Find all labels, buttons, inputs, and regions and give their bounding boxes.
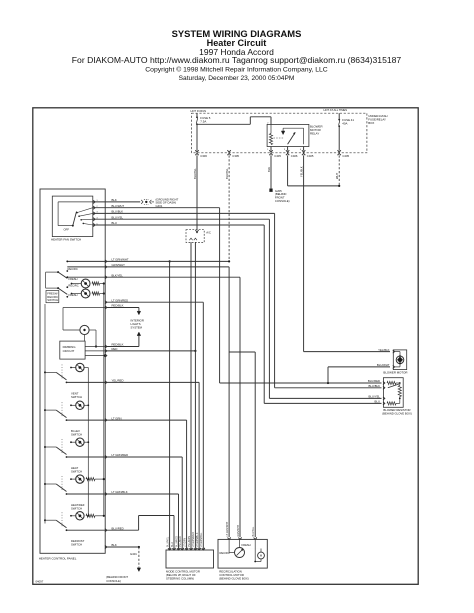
recirc position sensor — [235, 548, 245, 558]
indicator bulb recirc — [72, 293, 81, 295]
relay pin stubs to connectors — [270, 147, 272, 151]
blower motor pins — [393, 350, 395, 353]
svg-text:1: 1 — [170, 548, 171, 550]
svg-text:BLU/YEL: BLU/YEL — [225, 168, 229, 179]
wire branch fuse5 to relay coil — [197, 123, 250, 125]
svg-text:BLK: BLK — [267, 167, 271, 172]
ground connector near dash — [141, 200, 143, 204]
indicator bulb HEAT — [71, 441, 76, 443]
svg-text:Copyright © 1998 Mitchell Repa: Copyright © 1998 Mitchell Repair Informa… — [145, 66, 328, 74]
svg-text:BLU/BLK: BLU/BLK — [112, 210, 124, 214]
svg-text:FRESH: FRESH — [68, 277, 77, 281]
diagram border frame — [33, 108, 418, 585]
wire RED dimming to junction — [105, 350, 195, 352]
indicator bulb fresh — [72, 283, 81, 285]
wire blower resistor common — [220, 382, 382, 384]
wire to mode pin4 — [105, 456, 182, 458]
wire YEL/BLK relay to blower motor — [303, 155, 305, 351]
relay coil — [269, 134, 272, 145]
svg-text:C405: C405 — [274, 154, 281, 158]
connector C405 at x=339.2 — [338, 150, 341, 152]
svg-text:M: M — [260, 554, 263, 558]
svg-text:40A: 40A — [342, 122, 347, 126]
resistor DEFROST bulb — [86, 514, 95, 517]
blower resistor elements — [387, 381, 396, 384]
panel pin row HEAT/DEF — [105, 492, 107, 495]
svg-text:HOT AT ALL TIMES: HOT AT ALL TIMES — [324, 108, 348, 112]
label box FRESH/RECIRC SWITCH — [46, 291, 59, 303]
wire BLU/WHT blower return — [328, 366, 390, 368]
relay contact arm — [288, 132, 296, 144]
svg-text:YEL/GRN: YEL/GRN — [188, 536, 191, 547]
svg-text:8: 8 — [200, 548, 201, 550]
svg-text:LT GRN/BLK: LT GRN/BLK — [196, 532, 199, 547]
wire branch to recirc pin3 — [229, 351, 255, 353]
wire stub dimming third — [85, 355, 105, 357]
svg-text:For DIAKOM-AUTO http://www.dia: For DIAKOM-AUTO http://www.diakom.ru Tag… — [72, 55, 402, 65]
mode switch VENT — [44, 371, 46, 373]
wire fuse41 to connector C405 — [338, 126, 340, 150]
resistor fresh bulb — [92, 282, 100, 285]
svg-text:6: 6 — [192, 548, 193, 550]
svg-text:RED: RED — [112, 347, 118, 351]
wire recirc lamp feed 3 — [67, 276, 105, 278]
svg-text:9: 9 — [204, 548, 205, 550]
svg-text:CONSOLE): CONSOLE) — [275, 199, 290, 203]
wire BLU fan sw — [93, 224, 264, 226]
blower resistor box — [383, 378, 403, 408]
wire BLU/YEL dashed to junction — [228, 155, 230, 261]
blower resistor pins — [383, 381, 385, 384]
fresh-recirc switch frame — [45, 272, 47, 288]
connector C305 at x=229.1 — [227, 150, 230, 152]
fuse F5 — [196, 116, 198, 118]
wire BLU/BLK fan sw — [93, 212, 275, 214]
dimming circuit box — [60, 341, 85, 359]
wire RED/BLK to interior lights system — [105, 307, 139, 309]
svg-text:YEL/BLK: YEL/BLK — [378, 348, 389, 352]
recirc motor pins — [228, 538, 231, 540]
wire to mode pin3 — [105, 493, 179, 495]
svg-text:HEATER FAN SWITCH: HEATER FAN SWITCH — [51, 237, 81, 241]
wires dimming circuit outputs — [85, 346, 105, 348]
wire BLK relay to ground G205 — [270, 155, 272, 188]
blower motor box — [393, 350, 406, 370]
svg-text:BLU/YEL: BLU/YEL — [112, 215, 124, 219]
wire RED/BLK from interior lights — [137, 332, 141, 336]
svg-text:1: 1 — [267, 149, 269, 151]
svg-text:RELAY: RELAY — [310, 131, 319, 135]
wire to mode pin1 from panel — [169, 260, 171, 262]
svg-text:HOT IN RUN: HOT IN RUN — [191, 109, 207, 113]
wire to mode pin2 (jogged) — [105, 529, 139, 531]
connector C406 at x=287.6 — [286, 150, 289, 152]
svg-text:A/C: A/C — [206, 230, 211, 234]
bulb bus to junction — [89, 329, 96, 331]
wire fuse5 to connector C306 — [196, 124, 198, 150]
svg-text:BLOWER MOTOR: BLOWER MOTOR — [383, 371, 407, 375]
heater fan switch pins — [93, 200, 95, 203]
illumination bulb above dimming circuit — [80, 325, 89, 334]
wire to recirc pin2 — [105, 276, 240, 278]
svg-text:C405: C405 — [307, 154, 314, 158]
svg-text:BLU: BLU — [112, 221, 117, 225]
svg-text:CIRCUIT: CIRCUIT — [63, 349, 75, 353]
svg-text:SWITCH: SWITCH — [71, 470, 82, 474]
recirculation control motor box — [218, 539, 267, 568]
mode control motor pins — [168, 548, 171, 550]
panel pin BLK ground row — [105, 545, 107, 548]
svg-text:BLU/YEL: BLU/YEL — [193, 168, 197, 179]
svg-text:3: 3 — [179, 548, 180, 550]
svg-text:RECIRC: RECIRC — [220, 551, 230, 555]
svg-text:1: 1 — [230, 537, 231, 539]
relay box U1 blower motor relay — [267, 124, 309, 146]
svg-text:BLU/YEL: BLU/YEL — [166, 536, 169, 547]
svg-text:C405: C405 — [342, 154, 349, 158]
svg-text:CONSOLE): CONSOLE) — [106, 579, 121, 583]
panel pin row VENT — [105, 381, 107, 384]
svg-text:3: 3 — [256, 537, 257, 539]
svg-text:4: 4 — [300, 149, 302, 151]
connector C405 at x=303.6 — [302, 150, 305, 152]
wire junction BLU/YEL power tap — [105, 260, 229, 262]
panel pin row DEFROST — [105, 529, 107, 532]
heater control panel box — [40, 189, 105, 553]
mode control motor box — [166, 550, 214, 568]
svg-text:SWITCH: SWITCH — [71, 395, 82, 399]
svg-text:OFF: OFF — [64, 228, 70, 232]
wire BLK fan switch to ground connector — [93, 201, 140, 203]
resistor recirc bulb — [92, 292, 100, 295]
svg-text:7: 7 — [196, 548, 197, 550]
ground G205 — [270, 189, 273, 192]
wire relay contact feed from fuse41 — [287, 155, 289, 186]
ground G401 dashed lead — [138, 547, 140, 568]
wire to recirc pin1 — [105, 266, 229, 268]
svg-text:SYSTEM: SYSTEM — [131, 325, 143, 329]
panel lamp bus — [103, 284, 105, 516]
svg-text:RED/BLK: RED/BLK — [112, 304, 124, 308]
wire A/C out 2 to mode pin7 — [194, 242, 196, 550]
svg-text:04097: 04097 — [36, 579, 44, 583]
svg-text:Saturday, December 23, 2000 0: Saturday, December 23, 2000 05:04PM — [179, 75, 295, 82]
blower motor M1 — [396, 356, 404, 364]
wire recirc lamp feed 2 — [67, 266, 105, 268]
panel switch bus — [44, 304, 46, 524]
recirc switch arm 2 — [57, 287, 59, 289]
svg-text:LT GRN/RED: LT GRN/RED — [112, 298, 129, 302]
svg-text:LT GRN/YEL: LT GRN/YEL — [200, 532, 203, 547]
wire LT GRN/RED to mode motor pin9 — [105, 301, 203, 303]
mode switch HEAT/DEF — [44, 483, 46, 485]
svg-text:BLU/BLK: BLU/BLK — [368, 384, 380, 388]
recirc switch arm 1 — [57, 271, 59, 273]
recirc motor M2 — [258, 552, 265, 559]
wire to mode pin5 — [105, 419, 187, 421]
svg-text:YEL/BLK: YEL/BLK — [300, 166, 304, 177]
panel pins fresh/recirc rows — [105, 260, 107, 263]
svg-text:SWITCH: SWITCH — [71, 543, 82, 547]
svg-text:3: 3 — [284, 149, 286, 151]
blower resistor bypass contact — [388, 384, 399, 388]
indicator bulb HEAT/DEF — [71, 478, 76, 480]
bulb return bus — [87, 368, 89, 516]
mode switch HEAT — [44, 446, 46, 448]
svg-text:(BEHIND GLOVE BOX): (BEHIND GLOVE BOX) — [382, 411, 412, 415]
svg-text:STEERING COLUMN): STEERING COLUMN) — [166, 577, 194, 581]
wire BLU/YEL fan sw — [93, 218, 270, 220]
svg-text:RECIRC: RECIRC — [68, 283, 78, 287]
wire to mode pin8 — [105, 381, 199, 383]
resistor HEAT/DEF bulb — [86, 478, 95, 481]
connector C405 at x=271.0 — [269, 150, 272, 152]
svg-text:BLU/RED: BLU/RED — [368, 379, 380, 383]
A/C connector (dashed) — [186, 230, 204, 243]
relay mechanical link (dashed) — [274, 137, 285, 139]
svg-text:2: 2 — [175, 548, 176, 550]
wire fuse5 top feed — [196, 113, 198, 117]
wire BLU/YEL fuse5 to A/C connector — [196, 155, 198, 229]
svg-text:SWITCH: SWITCH — [47, 298, 58, 302]
svg-text:BLU: BLU — [171, 542, 174, 547]
svg-text:BLU: BLU — [375, 400, 380, 404]
svg-text:SWITCH: SWITCH — [71, 507, 82, 511]
wire fuse41 top feed — [338, 113, 340, 119]
svg-text:LT GRN/RED: LT GRN/RED — [192, 532, 195, 547]
svg-text:2: 2 — [241, 537, 242, 539]
svg-text:YEL/RED: YEL/RED — [179, 536, 182, 547]
under-dash fuse/relay box (dashed) — [192, 113, 367, 153]
relay fixed contact wire — [283, 127, 304, 129]
mode switch BI-LEV — [44, 409, 46, 411]
wire BLK panel to ground G401 — [105, 546, 139, 548]
svg-text:SWITCH: SWITCH — [71, 433, 82, 437]
fuse F41 — [338, 119, 340, 121]
svg-text:(BEHIND GLOVE BOX): (BEHIND GLOVE BOX) — [219, 577, 249, 581]
indicator bulb BI-LEV — [71, 404, 76, 406]
svg-text:HEATER CONTROL PANEL: HEATER CONTROL PANEL — [39, 556, 77, 560]
svg-text:4: 4 — [183, 548, 184, 550]
wire A/C out 1 to mode pin6 — [190, 242, 192, 550]
svg-text:C306: C306 — [200, 154, 207, 158]
svg-text:BLU/WHT: BLU/WHT — [112, 204, 125, 208]
panel pin row BI-LEV — [105, 419, 107, 422]
svg-text:5: 5 — [187, 548, 188, 550]
svg-text:C406: C406 — [291, 154, 298, 158]
svg-text:BLU/RED: BLU/RED — [175, 536, 178, 547]
svg-text:WHT: WHT — [335, 173, 339, 179]
connector C306 at x=197.0 — [195, 150, 198, 152]
svg-text:BLU/YEL: BLU/YEL — [368, 395, 380, 399]
svg-text:G401: G401 — [130, 552, 137, 556]
indicator bulb VENT — [71, 367, 76, 369]
heater fan switch rotary contacts — [58, 201, 93, 203]
svg-text:C305: C305 — [232, 154, 239, 158]
wire BLU/WHT fan sw to resistor pin1 — [93, 207, 220, 209]
heater fan switch box — [52, 196, 93, 237]
svg-text:7.5A: 7.5A — [200, 120, 206, 124]
svg-text:BOX: BOX — [368, 121, 374, 125]
wire recirc lamp feed 1 — [67, 260, 105, 262]
svg-text:LT GRN/WHT: LT GRN/WHT — [226, 521, 229, 536]
svg-text:RED/BLK: RED/BLK — [112, 343, 124, 347]
indicator bulb DEFROST — [71, 515, 76, 517]
svg-text:FRESH: FRESH — [242, 543, 251, 547]
svg-text:BLK: BLK — [112, 198, 117, 202]
svg-text:GRN/WHT: GRN/WHT — [237, 525, 240, 537]
svg-text:RECIRC: RECIRC — [68, 267, 78, 271]
mode switch DEFROST — [44, 519, 46, 521]
panel pin row HEAT — [105, 455, 107, 458]
svg-text:BLK/YEL: BLK/YEL — [252, 526, 255, 536]
svg-text:LT GRN: LT GRN — [183, 538, 186, 547]
